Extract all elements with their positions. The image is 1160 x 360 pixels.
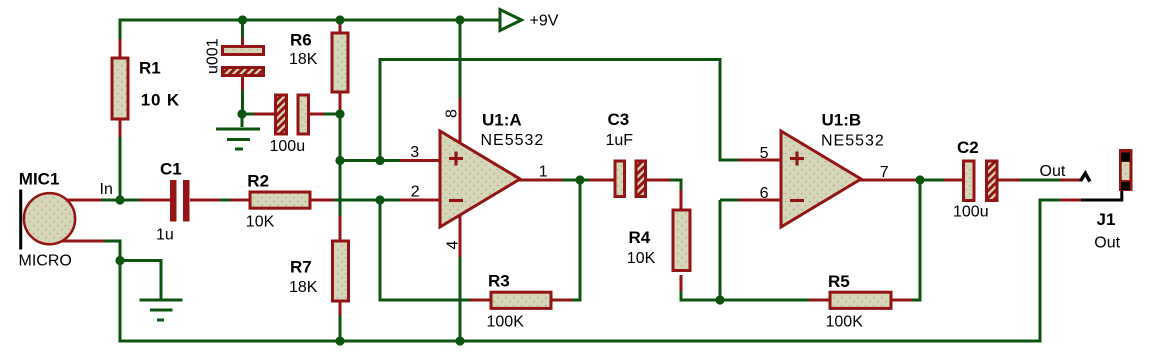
- capacitor 100u horizontal (bias filter): [242, 95, 340, 155]
- wire C3 to R4: [670, 180, 681, 191]
- wire R4 bottom to node: [681, 291, 720, 300]
- wire node to R5: [720, 299, 810, 302]
- svg-text:3: 3: [410, 144, 419, 161]
- wire pin6 column: [719, 200, 722, 300]
- svg-text:100u: 100u: [953, 204, 989, 221]
- svg-text:100K: 100K: [487, 314, 525, 331]
- wire mic ground stub: [120, 261, 161, 301]
- svg-text:10K: 10K: [246, 214, 275, 231]
- svg-text:NE5532: NE5532: [481, 132, 545, 149]
- svg-text:u001: u001: [205, 38, 222, 74]
- resistor R5: [809, 272, 913, 331]
- ground (mic): [140, 300, 183, 320]
- svg-text:R3: R3: [488, 272, 510, 291]
- svg-text:1: 1: [539, 163, 548, 180]
- node Out caret mark: [1081, 173, 1090, 181]
- capacitor C3: [589, 110, 671, 197]
- wire pin8 to top rail: [459, 20, 462, 98]
- wire top +9V rail: [120, 20, 500, 41]
- svg-text:MICRO: MICRO: [19, 253, 72, 270]
- svg-text:1u: 1u: [156, 227, 174, 244]
- svg-text:In: In: [100, 181, 113, 198]
- resistor R1: [112, 39, 180, 137]
- svg-text:C2: C2: [957, 138, 979, 157]
- wire In node row: [100, 199, 141, 202]
- svg-text:R1: R1: [139, 58, 161, 77]
- op-amp U1:A: [400, 96, 563, 259]
- svg-text:+9V: +9V: [530, 13, 559, 30]
- node U1:B output: [915, 175, 924, 184]
- resistor R3: [470, 272, 572, 331]
- capacitor C1: [140, 160, 222, 244]
- microphone MIC1: [19, 170, 105, 270]
- wire C1 to R2: [220, 199, 231, 202]
- node pin2 / feedback: [375, 195, 384, 204]
- wire R1 bottom to In node: [119, 136, 122, 200]
- wire mic bottom / ground rail: [103, 200, 1060, 341]
- svg-text:NE5532: NE5532: [821, 133, 885, 150]
- wire output down to R3: [571, 180, 580, 300]
- node pin4 / ground rail: [455, 336, 464, 345]
- svg-text:18K: 18K: [289, 279, 318, 296]
- wire U1:B output to C2: [915, 179, 945, 182]
- wire U1:A output: [562, 179, 590, 182]
- wire pin4 to ground rail: [459, 257, 462, 341]
- connector J1: [1094, 149, 1132, 252]
- svg-text:4: 4: [445, 241, 462, 250]
- svg-text:7: 7: [880, 164, 889, 181]
- wire bias rail y58 to pin5: [380, 60, 740, 161]
- node top rail / cap: [238, 15, 247, 24]
- node mic ground: [115, 256, 124, 265]
- wire bias row to pin3: [340, 159, 401, 162]
- capacitor 100u vertical (top): [205, 20, 264, 114]
- resistor R2: [230, 172, 335, 231]
- svg-text:U1:B: U1:B: [822, 111, 862, 130]
- node top rail / pin8: [455, 15, 464, 24]
- ground (top cap): [216, 114, 260, 149]
- node cap / ground: [237, 109, 246, 118]
- svg-text:100u: 100u: [270, 138, 306, 155]
- svg-text:C3: C3: [608, 110, 630, 129]
- svg-text:6: 6: [760, 185, 769, 202]
- svg-text:5: 5: [760, 145, 769, 162]
- node bias rail tap: [375, 156, 384, 165]
- svg-text:Out: Out: [1040, 163, 1066, 180]
- capacitor C2: [944, 138, 1021, 221]
- svg-text:R2: R2: [247, 172, 269, 191]
- svg-text:18K: 18K: [289, 51, 318, 68]
- wire R2 to pin2 node: [334, 199, 401, 202]
- svg-text:1uF: 1uF: [606, 132, 634, 149]
- svg-text:U1:A: U1:A: [482, 111, 522, 130]
- node R6 bottom: [335, 109, 344, 118]
- svg-text:R5: R5: [828, 272, 850, 291]
- node In: [115, 195, 124, 204]
- svg-text:Out: Out: [1094, 235, 1120, 252]
- node U1:A output: [575, 175, 584, 184]
- resistor R7: [289, 216, 349, 341]
- resistor R6: [289, 20, 348, 114]
- op-amp U1:B: [739, 111, 916, 228]
- node R4/R5: [715, 295, 724, 304]
- power +9V arrow: [500, 10, 522, 31]
- wire C2 to Out terminal: [1020, 179, 1061, 182]
- svg-text:R4: R4: [629, 228, 651, 247]
- wire bias column: [339, 114, 342, 217]
- wire pin6 row: [720, 199, 740, 202]
- svg-text:C1: C1: [160, 160, 182, 179]
- svg-text:J1: J1: [1097, 210, 1116, 229]
- svg-text:MIC1: MIC1: [19, 170, 60, 189]
- svg-text:10 K: 10 K: [141, 91, 180, 110]
- wire Out dangling end: [1060, 179, 1081, 182]
- svg-text:2: 2: [411, 183, 420, 200]
- wire J1 connection: [1060, 199, 1081, 202]
- node top rail / R6: [335, 15, 344, 24]
- node R7 / ground rail: [335, 336, 344, 345]
- svg-text:8: 8: [443, 109, 460, 118]
- svg-text:10K: 10K: [627, 250, 656, 267]
- wire pin2 node down to R3: [380, 200, 471, 300]
- node bias / pin3: [335, 156, 344, 165]
- resistor R4: [627, 190, 690, 293]
- svg-text:100K: 100K: [826, 314, 864, 331]
- svg-text:R6: R6: [290, 31, 312, 50]
- svg-text:R7: R7: [290, 258, 312, 277]
- wire R5 up to output: [912, 180, 920, 300]
